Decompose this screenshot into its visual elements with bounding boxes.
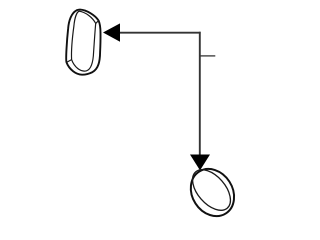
wire: horizontal leader from left arrow to corner <box>116 32 201 34</box>
ring outer rim <box>182 161 243 225</box>
arrowhead pointing left at plug <box>103 23 120 41</box>
plug facet line bottom-left <box>67 60 72 63</box>
plug facet line top-right <box>96 21 99 24</box>
tick: short reference stub on vertical leader <box>200 55 216 57</box>
arrowhead pointing down at ring <box>190 155 210 171</box>
plug face inner outline <box>72 11 96 71</box>
ring inner rim <box>185 163 237 217</box>
plug body outer silhouette <box>66 10 100 75</box>
wire: vertical leader down to lower arrow <box>199 32 201 156</box>
